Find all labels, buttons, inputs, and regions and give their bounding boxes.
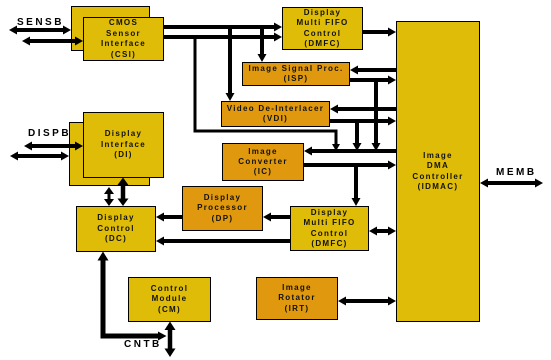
wire DC to CNTB elbow — [98, 252, 167, 341]
wire DISPB bus arrow 2 (double headed) — [10, 152, 69, 161]
wire SENSB bus arrow 1 (double headed) — [9, 26, 71, 35]
label CNTB — [124, 339, 162, 350]
wire MEMB bus (double headed) — [480, 179, 543, 188]
block DP : Display Processor — [182, 186, 263, 231]
wire CSI tap to IC bus (thin elbow) — [195, 36, 340, 151]
wire IDMAC to ISP — [350, 66, 396, 75]
wire ISP line tap down to IC bus — [372, 80, 381, 151]
block IRT : Image Rotator — [256, 277, 338, 320]
wire CSI to DMFC line 1 — [164, 23, 282, 32]
wire DMFC bottom to DC — [156, 237, 290, 246]
wire IDMAC to IC input bus — [304, 147, 396, 156]
block IC : Image Converter — [222, 143, 304, 181]
block DI : Display Interface — [83, 112, 164, 178]
block CSI shadow box — [71, 6, 150, 51]
wire IDMAC to VDI — [330, 105, 396, 114]
block DMFC bottom : Display Multi FIFO Control — [290, 206, 369, 251]
block ISP : Image Signal Processor — [242, 62, 350, 86]
wire DMFC bottom to IDMAC (double headed) — [369, 227, 396, 236]
wire IC to IDMAC — [304, 161, 396, 170]
wire CSI to DMFC line 2 — [164, 33, 282, 42]
label SENSB — [17, 17, 64, 28]
wire DP to DC — [156, 213, 182, 222]
wire VDI line tap down to IC bus — [353, 121, 362, 151]
wire CNTB vertical (double headed) — [165, 322, 176, 358]
wire drop to VDI — [226, 25, 235, 101]
label DISPB — [28, 128, 71, 139]
wire SENSB bus arrow 2 (double headed) — [22, 37, 83, 46]
wire IRT to IDMAC (double headed) — [338, 297, 396, 306]
wire VDI to IDMAC — [330, 117, 396, 126]
wire DI to DC thick (double headed) — [118, 178, 129, 207]
wire DI to DC thin (double headed) — [104, 187, 114, 206]
wire DMFC top to IDMAC — [363, 28, 396, 37]
block DC : Display Control — [76, 206, 156, 252]
block VDI : Video De-Interlacer — [221, 101, 330, 127]
block DMFC top : Display Multi FIFO Control — [282, 7, 363, 50]
wire DMFC bottom to DP — [263, 213, 290, 222]
wire IC line drop to DMFC bottom — [352, 165, 361, 206]
wire drop to ISP — [258, 25, 267, 62]
wire ISP to IDMAC — [350, 76, 396, 85]
block IDMAC : Image DMA Controller — [396, 21, 480, 322]
wire DISPB bus arrow 1 (double headed) — [24, 142, 83, 151]
label MEMB — [496, 167, 537, 178]
block CM : Control Module — [128, 277, 211, 322]
block CSI : CMOS Sensor Interface — [83, 17, 164, 61]
block DI shadow box — [69, 122, 150, 186]
